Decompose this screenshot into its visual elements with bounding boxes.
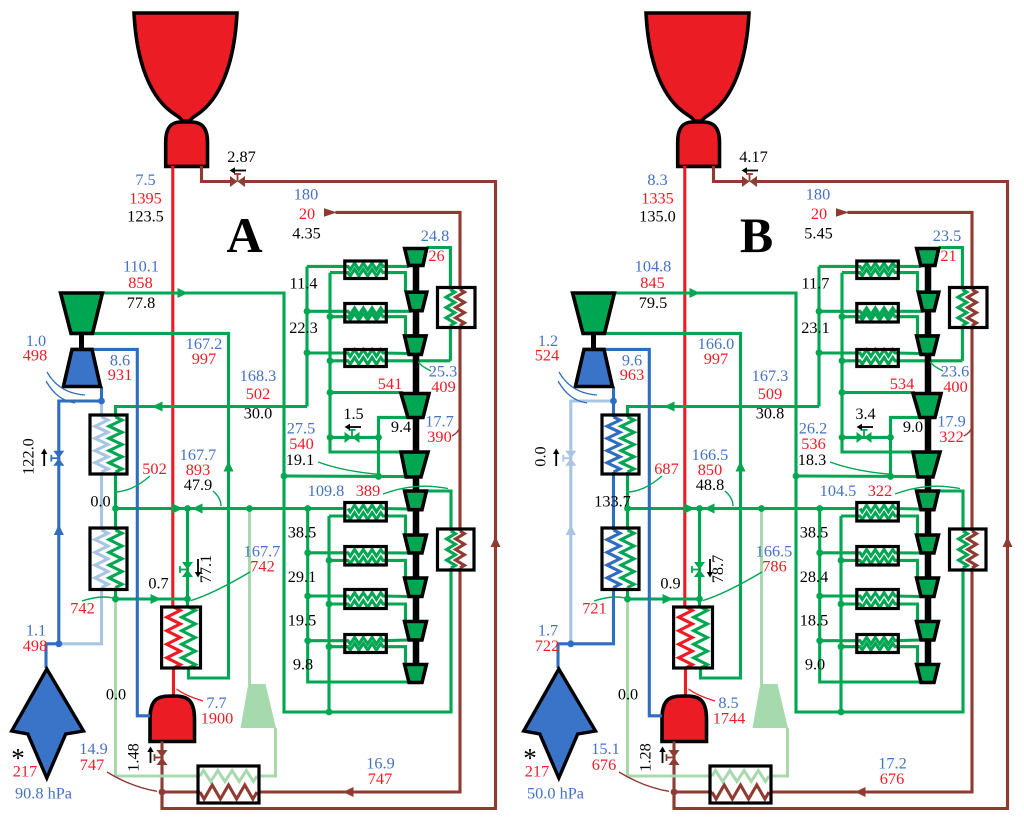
svg-text:167.3: 167.3 bbox=[752, 366, 789, 385]
B: valve 78.7 bbox=[692, 562, 705, 577]
A: green strand HX5 bottom bbox=[329, 557, 406, 577]
B: green node 19 bbox=[838, 643, 845, 650]
svg-text:90.8 hPa: 90.8 hPa bbox=[15, 784, 72, 803]
B: green strand HX7 top bbox=[820, 637, 921, 644]
B: leader from label 721 bbox=[594, 597, 626, 601]
svg-text:534: 534 bbox=[890, 374, 914, 393]
B: regenerator HX lower left bbox=[602, 528, 639, 590]
B: propellant inlet arrow bbox=[524, 669, 596, 778]
B: pale green zigzag in bottom HX bbox=[712, 771, 769, 782]
A: turbine stage b bbox=[406, 292, 427, 311]
A: green zigzag regenerator lower bbox=[109, 530, 122, 588]
B: green strand HX3 bottom bbox=[842, 358, 962, 365]
svg-text:18.5: 18.5 bbox=[800, 611, 829, 630]
B: green extraction collect line bbox=[628, 507, 858, 510]
svg-text:742: 742 bbox=[70, 599, 94, 618]
B: turbine stage c bbox=[917, 336, 938, 355]
B: blue wire pump discharge to preburner bbox=[604, 349, 662, 715]
svg-text:1.5: 1.5 bbox=[343, 404, 363, 423]
B: green strand HX6 top bbox=[820, 593, 921, 600]
B: green node 7 bbox=[839, 313, 846, 320]
A: green node 11 bbox=[184, 505, 191, 512]
svg-text:786: 786 bbox=[762, 557, 786, 576]
B: green node 11 bbox=[696, 505, 703, 512]
svg-text:524: 524 bbox=[535, 346, 559, 365]
svg-text:3.4: 3.4 bbox=[855, 404, 875, 423]
B: turbine stack shaft segment 9 bbox=[925, 640, 932, 665]
B: combustion chamber bbox=[678, 122, 720, 166]
A: brown zigzag in lower right HX bbox=[456, 531, 465, 568]
svg-text:498: 498 bbox=[23, 346, 47, 365]
B: brown wire bottom HX to drain node bbox=[674, 790, 712, 793]
svg-text:931: 931 bbox=[108, 365, 132, 384]
A: small arrow at valve 1.5 bbox=[345, 424, 362, 430]
B: turbine stage a bbox=[917, 249, 939, 266]
A: leader from label 47.9 bbox=[213, 491, 221, 506]
B: coolant zigzag regenerator upper bbox=[607, 417, 620, 472]
A: green node 7 bbox=[327, 313, 334, 320]
svg-text:963: 963 bbox=[620, 365, 644, 384]
svg-text:48.8: 48.8 bbox=[696, 475, 725, 494]
A: green strand HX7 bottom bbox=[329, 643, 406, 663]
A: green zigzag in upper right HX bbox=[446, 290, 455, 326]
B: green wire left bus upper stack inner bbox=[842, 273, 914, 452]
A: green wire turbine d exhaust bbox=[379, 417, 408, 437]
A: green wire upper right HX to turbine a bbox=[427, 248, 451, 290]
A: green node 19 bbox=[326, 643, 333, 650]
svg-text:1.48: 1.48 bbox=[124, 743, 143, 772]
B: turbine stack shaft segment 2 bbox=[925, 311, 932, 336]
svg-text:22.3: 22.3 bbox=[289, 318, 318, 337]
svg-text:721: 721 bbox=[582, 599, 606, 618]
svg-text:180: 180 bbox=[294, 185, 318, 204]
A: green wire lower left bus outer bbox=[308, 509, 409, 683]
A: green zigzag in chamber cooling HX bbox=[182, 607, 196, 668]
A: green node 4 bbox=[327, 434, 334, 441]
B: green left arrow collect line bbox=[704, 504, 715, 514]
svg-text:687: 687 bbox=[654, 459, 678, 478]
svg-text:47.9: 47.9 bbox=[184, 475, 213, 494]
B: leader from label 322 bbox=[895, 486, 960, 494]
B: green wire turbine d feed bbox=[842, 391, 915, 394]
B: green node 3 bbox=[887, 434, 894, 441]
svg-text:0.0: 0.0 bbox=[106, 685, 126, 704]
A: brown zigzag in upper right HX bbox=[456, 290, 465, 326]
A: blue node pump suction junction bbox=[98, 398, 105, 405]
B: brown wire between right HXs bbox=[970, 326, 973, 532]
A: green strand HX4 top bbox=[348, 505, 409, 512]
B: coolant line between regenerators bbox=[612, 472, 615, 530]
B: coolant zigzag regenerator lower bbox=[607, 530, 620, 588]
A: coolant line between regenerators bbox=[100, 472, 103, 530]
A: ghost turbine silhouette bbox=[241, 684, 277, 728]
svg-text:0.0: 0.0 bbox=[90, 492, 110, 511]
svg-text:20: 20 bbox=[811, 204, 827, 223]
B: main pump bbox=[575, 349, 612, 386]
A: turbine stage e bbox=[401, 452, 428, 477]
svg-text:50.0 hPa: 50.0 hPa bbox=[527, 784, 584, 803]
svg-text:11.7: 11.7 bbox=[802, 274, 830, 293]
svg-text:0.7: 0.7 bbox=[148, 574, 168, 593]
B: green node 2 bbox=[887, 473, 894, 480]
svg-text:18.3: 18.3 bbox=[798, 450, 827, 469]
B: red zigzag in chamber cooling HX bbox=[679, 607, 693, 668]
B: leader from label 676 bbox=[619, 772, 669, 791]
svg-text:122.0: 122.0 bbox=[19, 438, 38, 475]
A: turbine stack shaft segment 7 bbox=[413, 553, 420, 578]
A: green node 9 bbox=[304, 349, 311, 356]
B: brown wire preburner drain bbox=[672, 742, 675, 809]
B: turbine stage d bbox=[913, 394, 941, 418]
B: green wire turbine d exhaust bbox=[891, 417, 920, 437]
B: leader from label 48.8 bbox=[725, 491, 733, 506]
svg-text:1744: 1744 bbox=[713, 709, 746, 728]
svg-text:19.1: 19.1 bbox=[286, 450, 315, 469]
A: green valve drop line bbox=[186, 509, 189, 608]
B: green node 17 bbox=[838, 557, 845, 564]
B: green wire left bus upper stack outer bbox=[817, 266, 820, 406]
A: leader from label 747 bbox=[107, 772, 157, 791]
B: turbine stack shaft segment 1 bbox=[925, 265, 932, 292]
A: small arrow at valve 77.1 bbox=[195, 559, 201, 578]
B: shaft turbine-pump bbox=[591, 333, 596, 349]
A: brown left arrow bottom line bbox=[343, 787, 354, 797]
B: green up arrow turbine drive line bbox=[736, 461, 746, 472]
svg-text:4.17: 4.17 bbox=[739, 147, 768, 166]
A: combustion chamber bbox=[166, 122, 208, 166]
B: blue up arrow on valve line bbox=[566, 525, 576, 536]
B: green wire lower left bus inner bbox=[839, 516, 842, 712]
svg-text:747: 747 bbox=[80, 755, 104, 774]
A: leader from label 1900 bbox=[177, 689, 204, 701]
svg-text:38.5: 38.5 bbox=[288, 523, 317, 542]
svg-text:5.45: 5.45 bbox=[804, 224, 833, 243]
B: green node 5 bbox=[839, 389, 846, 396]
A: green wire heated feed line bbox=[116, 597, 188, 600]
B: green zigzag in upper right HX bbox=[958, 290, 967, 326]
A: turbine stack shaft segment 8 bbox=[413, 597, 420, 622]
A: green strand HX4 bottom bbox=[329, 513, 406, 534]
B: turbine stage g bbox=[917, 535, 939, 553]
svg-text:217: 217 bbox=[13, 762, 37, 781]
A: regenerator HX upper left bbox=[90, 415, 127, 474]
A: drive turbine bbox=[61, 293, 103, 333]
A: valve 1.5 bbox=[345, 430, 360, 443]
svg-text:23.1: 23.1 bbox=[801, 318, 830, 337]
svg-text:858: 858 bbox=[128, 273, 152, 292]
B: extraction HX4 bbox=[857, 503, 899, 522]
svg-text:24.8: 24.8 bbox=[421, 226, 450, 245]
A: heat exchanger coolant line upper bbox=[100, 401, 103, 417]
A: green up arrow turbine drive line bbox=[224, 461, 234, 472]
A: coolant zigzag regenerator upper bbox=[95, 417, 108, 472]
B: brown wire top line to right riser bbox=[674, 182, 1008, 809]
svg-text:845: 845 bbox=[640, 273, 664, 292]
A: turbine stack shaft segment 2 bbox=[413, 311, 420, 336]
A: valve 2.87 bbox=[230, 174, 245, 187]
A: reheat HX2 bbox=[345, 304, 387, 323]
A: green node 17 bbox=[326, 557, 333, 564]
B: brown zigzag in bottom HX bbox=[712, 785, 769, 799]
B: small arrow at valve 4.17 bbox=[742, 167, 759, 173]
A: green strand HX5 top bbox=[308, 550, 409, 557]
A: leader from label 502 bbox=[117, 476, 150, 492]
A: leader from label 742 bbox=[191, 572, 250, 601]
svg-text:1395: 1395 bbox=[129, 189, 162, 208]
svg-text:997: 997 bbox=[192, 349, 216, 368]
B: green node 9 bbox=[816, 349, 823, 356]
A: brown wire into bottom HX bbox=[259, 790, 344, 793]
A: green node 8 bbox=[304, 308, 311, 315]
B: brown left arrow bottom line bbox=[855, 787, 866, 797]
B: drive turbine bbox=[573, 293, 615, 333]
B: green feed line to regenerator bbox=[628, 407, 820, 418]
B: leader from label 786 bbox=[703, 572, 762, 601]
A: extraction HX7 bbox=[345, 635, 387, 653]
B: reheat HX2 bbox=[857, 304, 899, 323]
A: turbine stack shaft segment 6 bbox=[413, 510, 420, 535]
B: lower right hot-gas HX bbox=[950, 529, 987, 570]
B: leader from label 322 bbox=[964, 428, 972, 436]
A: green node 12 bbox=[246, 505, 253, 512]
A: green wire between regenerators bbox=[114, 472, 117, 530]
A: green wire cooling HX to turbine drive bbox=[93, 333, 229, 678]
A: green node 2 bbox=[375, 473, 382, 480]
B: pale green wire to ghost turbine bbox=[760, 509, 763, 685]
A: pale green wire to ghost turbine bbox=[248, 509, 251, 685]
A: turbine stack shaft segment 5 bbox=[413, 477, 420, 491]
A: blue valve bypass line bbox=[59, 401, 102, 644]
A: brown wire preburner drain bbox=[160, 742, 163, 809]
svg-text:541: 541 bbox=[378, 374, 402, 393]
A: green wire turbine d feed bbox=[330, 391, 403, 394]
A: coolant return line bbox=[59, 588, 102, 644]
svg-text:78.7: 78.7 bbox=[708, 555, 727, 584]
svg-text:21: 21 bbox=[940, 246, 956, 265]
svg-text:676: 676 bbox=[880, 769, 904, 788]
A: green strand HX2 top bbox=[307, 308, 411, 315]
B: blue node pump suction junction bbox=[610, 398, 617, 405]
B: green strand HX3 top bbox=[819, 350, 921, 357]
A: brown source arrow of turbine-exhaust line bbox=[324, 208, 337, 217]
B: blue wire junction down to inlet arrow bbox=[556, 644, 559, 668]
A: blue up arrow on valve line bbox=[54, 525, 64, 536]
A: green wire upper right HX loop bbox=[449, 326, 452, 361]
B: green node 18 bbox=[838, 601, 845, 608]
A: green node 3 bbox=[375, 434, 382, 441]
svg-text:389: 389 bbox=[356, 481, 380, 500]
B: preburner dome bbox=[662, 696, 707, 742]
svg-text:676: 676 bbox=[592, 755, 616, 774]
A: valve 122.0 bbox=[51, 451, 64, 466]
A: turbine stage i bbox=[405, 622, 427, 641]
B: blue node inlet junction bbox=[567, 640, 574, 647]
svg-text:180: 180 bbox=[806, 185, 830, 204]
A: green strand HX1 bottom bbox=[330, 269, 406, 291]
B: brown wire into bottom HX bbox=[771, 790, 856, 793]
A: turbine stage h bbox=[405, 578, 427, 597]
svg-text:9.0: 9.0 bbox=[805, 655, 825, 674]
svg-text:400: 400 bbox=[943, 377, 967, 396]
B: reheat HX3 bbox=[857, 350, 899, 367]
A: pale green zigzag in bottom HX bbox=[200, 771, 257, 782]
A: green node 5 bbox=[327, 389, 334, 396]
A: leader from label 389 bbox=[383, 486, 448, 494]
A: green zigzag in lower right HX bbox=[447, 531, 456, 568]
svg-text:133.7: 133.7 bbox=[594, 492, 631, 511]
svg-text:11.4: 11.4 bbox=[290, 274, 318, 293]
svg-text:502: 502 bbox=[246, 384, 270, 403]
svg-text:B: B bbox=[740, 207, 773, 263]
B: red wire nozzle to cooling HX bbox=[683, 166, 686, 607]
A: bottom preburner-gas HX bbox=[198, 766, 259, 803]
B: upper right hot-gas HX bbox=[950, 288, 988, 328]
A: turbine stack shaft segment 4 bbox=[413, 418, 420, 453]
B: regenerator HX upper left bbox=[602, 415, 639, 474]
svg-text:104.5: 104.5 bbox=[820, 481, 857, 500]
A: turbine stack shaft segment 3 bbox=[413, 354, 420, 393]
svg-text:0.0: 0.0 bbox=[531, 446, 550, 466]
A: blue wire pump discharge to preburner bbox=[92, 349, 150, 715]
B: valve 4.17 bbox=[742, 174, 757, 187]
A: brown node drain junction bbox=[159, 789, 166, 796]
B: turbine stack shaft segment 4 bbox=[925, 418, 932, 453]
B: green strand HX2 top bbox=[819, 308, 923, 315]
A: leader from label 390 bbox=[452, 428, 460, 436]
B: small arrow at valve 0.0 bbox=[553, 449, 559, 467]
svg-text:498: 498 bbox=[23, 636, 47, 655]
A: extraction HX5 bbox=[345, 547, 387, 566]
A: small arrow at valve 1.48 bbox=[147, 747, 153, 764]
B: brown wire chamber tap to top valve line bbox=[714, 166, 743, 182]
svg-text:8.3: 8.3 bbox=[647, 170, 667, 189]
B: brown zigzag in upper right HX bbox=[968, 290, 977, 326]
svg-text:77.1: 77.1 bbox=[196, 555, 215, 584]
svg-text:79.5: 79.5 bbox=[639, 293, 668, 312]
svg-text:502: 502 bbox=[142, 459, 166, 478]
A: reheat HX1 bbox=[345, 261, 387, 279]
A: turbine stage j bbox=[405, 665, 427, 683]
A: red zigzag in chamber cooling HX bbox=[167, 607, 181, 668]
A: blue node inlet junction bbox=[55, 640, 62, 647]
B: heat exchanger coolant line upper bbox=[612, 401, 615, 417]
A: pale green wire bottom HX return bbox=[116, 599, 201, 776]
B: green wire stage extraction manifold bbox=[796, 474, 919, 478]
A: preburner dome bbox=[150, 696, 195, 742]
A: extraction HX6 bbox=[345, 590, 387, 609]
B: green strand HX5 bottom bbox=[841, 557, 918, 577]
B: small arrow at valve 78.7 bbox=[707, 559, 713, 578]
A: green wire regenerator exit bbox=[114, 588, 117, 600]
B: green strand HX1 bottom bbox=[842, 269, 918, 291]
A: green strand HX6 bottom bbox=[329, 601, 406, 621]
svg-text:77.8: 77.8 bbox=[127, 293, 156, 312]
A: turbine stage d bbox=[401, 394, 429, 418]
A: green right arrow collect line bbox=[173, 504, 184, 514]
A: green wire bypass valve line bbox=[330, 436, 379, 439]
B: chamber cooling HX bbox=[674, 607, 713, 668]
A: main nozzle bell bbox=[134, 13, 237, 121]
A: turbine stage c bbox=[405, 336, 426, 355]
A: leader 2 from pump inlet labels bbox=[46, 381, 75, 403]
B: green node 21 bbox=[624, 596, 631, 603]
svg-text:9.8: 9.8 bbox=[293, 655, 313, 674]
svg-text:0.0: 0.0 bbox=[618, 685, 638, 704]
A: green wire turbine d exhaust drop bbox=[377, 437, 380, 476]
A: blue wire junction down to inlet arrow bbox=[44, 644, 47, 668]
B: green zigzag in chamber cooling HX bbox=[694, 607, 708, 668]
B: leader from pump inlet labels bbox=[559, 372, 597, 395]
svg-text:23.5: 23.5 bbox=[933, 226, 962, 245]
B: blue valve bypass line bbox=[571, 401, 614, 644]
B: green zigzag in lower right HX bbox=[959, 531, 968, 568]
svg-text:2.87: 2.87 bbox=[227, 147, 256, 166]
A: green node 18 bbox=[326, 601, 333, 608]
A: red wire cooling HX to preburner dome bbox=[172, 668, 175, 697]
A: leader from pump inlet labels bbox=[47, 372, 85, 395]
B: green right arrow heated feed bbox=[663, 594, 674, 604]
B: green strand HX1 top bbox=[819, 263, 921, 270]
B: green wire cooling HX to turbine drive bbox=[605, 333, 741, 678]
svg-text:30.8: 30.8 bbox=[756, 404, 785, 423]
B: green node 13 bbox=[816, 505, 823, 512]
A: green node 13 bbox=[304, 505, 311, 512]
B: green left arrow feed line bbox=[664, 402, 675, 412]
A: brown wire top line to right riser bbox=[162, 182, 496, 809]
B: green node 14 bbox=[816, 549, 823, 556]
A: brown zigzag in bottom HX bbox=[200, 785, 257, 799]
A: turbine stage g bbox=[405, 535, 427, 553]
A: brown wire hot-gas line down through right heat exchangers bbox=[336, 212, 461, 289]
B: turbine stage f bbox=[917, 491, 939, 510]
A: green wire turbine exhaust bus bbox=[102, 293, 451, 712]
svg-text:123.5: 123.5 bbox=[127, 207, 164, 226]
B: green wire turbine d exhaust drop bbox=[889, 437, 892, 476]
svg-text:38.5: 38.5 bbox=[800, 523, 829, 542]
B: green node 12 bbox=[758, 505, 765, 512]
A: turbine stage a bbox=[405, 249, 427, 266]
svg-text:30.0: 30.0 bbox=[244, 404, 273, 423]
A: brown wire bottom HX to drain node bbox=[162, 790, 200, 793]
B: brown up arrow on right riser bbox=[1003, 537, 1013, 548]
A: green left arrow collect line bbox=[192, 504, 203, 514]
A: green strand HX7 top bbox=[308, 637, 409, 644]
A: green right arrow heated feed bbox=[151, 594, 162, 604]
A: green extraction collect line bbox=[116, 507, 346, 510]
B: pale green wire bottom HX return bbox=[628, 599, 713, 776]
B: green strand HX4 top bbox=[860, 505, 921, 512]
B: turbine stage h bbox=[917, 578, 939, 597]
svg-text:7.5: 7.5 bbox=[135, 170, 155, 189]
A: green node 22 bbox=[184, 596, 191, 603]
B: valve 1.28 bbox=[667, 750, 680, 765]
B: leader from label 23.6 bbox=[931, 362, 944, 372]
A: extraction HX4 bbox=[345, 503, 387, 522]
svg-text:1900: 1900 bbox=[201, 709, 234, 728]
B: turbine stack shaft segment 7 bbox=[925, 553, 932, 578]
svg-text:747: 747 bbox=[368, 769, 392, 788]
A: brown wire between right HXs bbox=[458, 326, 461, 532]
A: small arrow at valve 2.87 bbox=[230, 167, 247, 173]
A: valve 1.48 bbox=[155, 750, 168, 765]
B: green wire upper right HX loop bbox=[961, 326, 964, 361]
svg-text:109.8: 109.8 bbox=[308, 481, 345, 500]
A: green strand HX3 bottom bbox=[330, 358, 450, 365]
svg-text:509: 509 bbox=[758, 384, 782, 403]
svg-text:322: 322 bbox=[868, 481, 892, 500]
B: leader from label 1744 bbox=[689, 689, 716, 701]
B: valve 0.0 bbox=[563, 451, 576, 466]
